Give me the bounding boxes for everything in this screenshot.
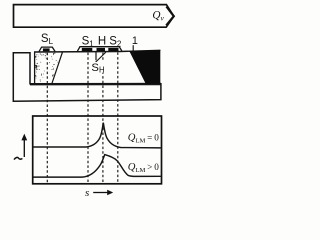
dashed guide line S_L bbox=[46, 53, 48, 184]
S_H label bbox=[91, 62, 105, 73]
svg-text:1: 1 bbox=[132, 35, 138, 47]
I axis glyph bbox=[14, 157, 22, 159]
s axis arrow bbox=[93, 192, 107, 194]
black alloyed end region bbox=[129, 50, 160, 84]
svg-text:s: s bbox=[85, 187, 89, 199]
stipple bevel slant line bbox=[52, 52, 63, 84]
layer 1 leader bbox=[132, 45, 134, 54]
curve QLM>0 bbox=[33, 155, 160, 178]
svg-text:H: H bbox=[98, 35, 106, 47]
mesa layer bottom thick line bbox=[30, 83, 161, 86]
wide contact bump S1-H-S2 bbox=[77, 47, 122, 52]
arrow tip thick bbox=[166, 7, 174, 26]
contact pad H bbox=[97, 48, 106, 51]
conveyor arrow bar bbox=[14, 5, 174, 28]
contact bump S_L bbox=[39, 47, 55, 52]
mesa left edge bbox=[34, 52, 36, 84]
dashed guide line S1 bbox=[87, 53, 89, 184]
stipple doped region bbox=[35, 53, 58, 82]
S_H leader diagonal bbox=[95, 52, 106, 62]
dashed guide line S2 bbox=[117, 52, 119, 183]
substrate L-shaped body bbox=[13, 53, 161, 101]
dashed guide line H bbox=[102, 53, 104, 184]
graph box bbox=[33, 116, 162, 184]
I axis arrow bbox=[23, 139, 25, 157]
contact pad S_L bbox=[43, 48, 50, 51]
mesa top surface bbox=[34, 50, 160, 52]
contact pad S1 bbox=[82, 48, 93, 51]
curve QLM=0 bbox=[33, 123, 160, 148]
contact pad S2 bbox=[108, 48, 118, 51]
S_H leader vertical bbox=[95, 51, 97, 60]
